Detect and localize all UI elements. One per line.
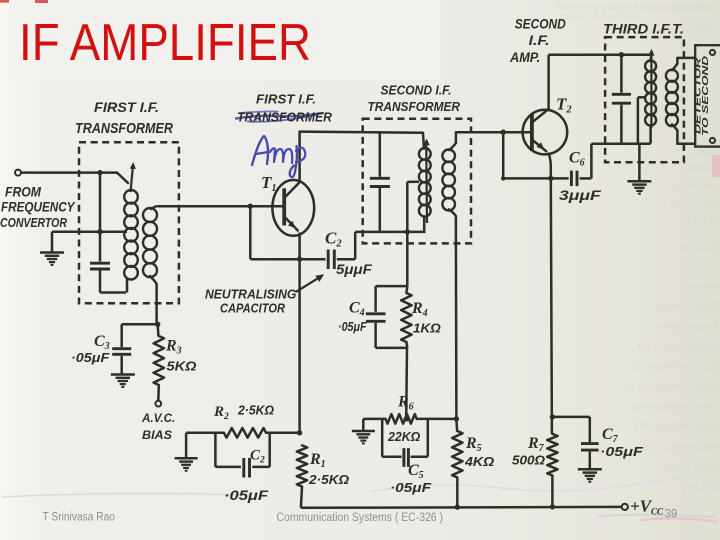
svg-text:IF AMPLIFIER: IF AMPLIFIER — [19, 14, 311, 72]
svg-text:AMP.: AMP. — [509, 50, 540, 65]
svg-text:TRANSFORMER: TRANSFORMER — [368, 99, 461, 114]
svg-text:·05μF: ·05μF — [71, 350, 110, 365]
svg-text:·05μF: ·05μF — [390, 480, 432, 495]
svg-text:SECOND I.F.: SECOND I.F. — [381, 83, 452, 98]
svg-text:·05μF: ·05μF — [224, 487, 269, 503]
svg-text:FROM: FROM — [5, 184, 41, 200]
svg-text:22KΩ: 22KΩ — [387, 429, 420, 444]
svg-text:A.V.C.: A.V.C. — [141, 411, 175, 425]
svg-text:500Ω: 500Ω — [512, 453, 545, 468]
svg-text:FIRST I.F.: FIRST I.F. — [94, 99, 159, 115]
svg-text:FIRST I.F.: FIRST I.F. — [256, 93, 316, 107]
svg-text:2·5KΩ: 2·5KΩ — [237, 403, 274, 418]
svg-text:CAPACITOR: CAPACITOR — [220, 301, 286, 316]
svg-text:I.F.: I.F. — [529, 33, 550, 48]
svg-text:TRANSFORMER: TRANSFORMER — [75, 121, 173, 137]
svg-text:·05μF: ·05μF — [338, 319, 367, 334]
svg-text:THIRD I.F.T.: THIRD I.F.T. — [603, 22, 684, 37]
svg-text:3μμF: 3μμF — [559, 187, 601, 203]
svg-text:2·5KΩ: 2·5KΩ — [308, 472, 349, 487]
svg-text:DETECTOR: DETECTOR — [693, 57, 703, 134]
svg-text:Communication Systems ( EC-326: Communication Systems ( EC-326 ) — [277, 512, 444, 524]
svg-text:BIAS: BIAS — [142, 428, 172, 442]
svg-text:4KΩ: 4KΩ — [464, 454, 494, 469]
svg-text:39: 39 — [665, 509, 678, 521]
svg-text:5KΩ: 5KΩ — [167, 359, 197, 374]
svg-text:·05μF: ·05μF — [600, 444, 644, 459]
svg-text:TRANSFORMER: TRANSFORMER — [237, 110, 333, 125]
svg-text:5μμF: 5μμF — [336, 261, 372, 277]
svg-text:1KΩ: 1KΩ — [413, 321, 441, 336]
svg-text:T Srinivasa Rao: T Srinivasa Rao — [43, 512, 116, 524]
svg-text:SECOND: SECOND — [515, 17, 566, 32]
svg-text:CONVERTOR: CONVERTOR — [0, 215, 67, 230]
svg-text:FREQUENCY: FREQUENCY — [1, 200, 76, 215]
svg-text:NEUTRALISING: NEUTRALISING — [205, 287, 296, 302]
